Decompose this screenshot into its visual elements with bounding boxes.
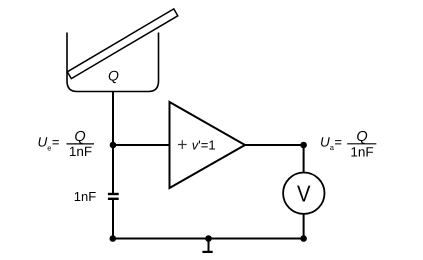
svg-text:Q: Q xyxy=(74,129,85,145)
svg-text:Q: Q xyxy=(108,67,119,83)
svg-text:v'=1: v'=1 xyxy=(192,137,216,152)
svg-text:V: V xyxy=(297,181,311,207)
svg-text:1nF: 1nF xyxy=(350,144,373,159)
svg-text:1nF: 1nF xyxy=(74,189,96,204)
svg-text:Q: Q xyxy=(356,129,367,145)
svg-text:1nF: 1nF xyxy=(69,144,92,159)
